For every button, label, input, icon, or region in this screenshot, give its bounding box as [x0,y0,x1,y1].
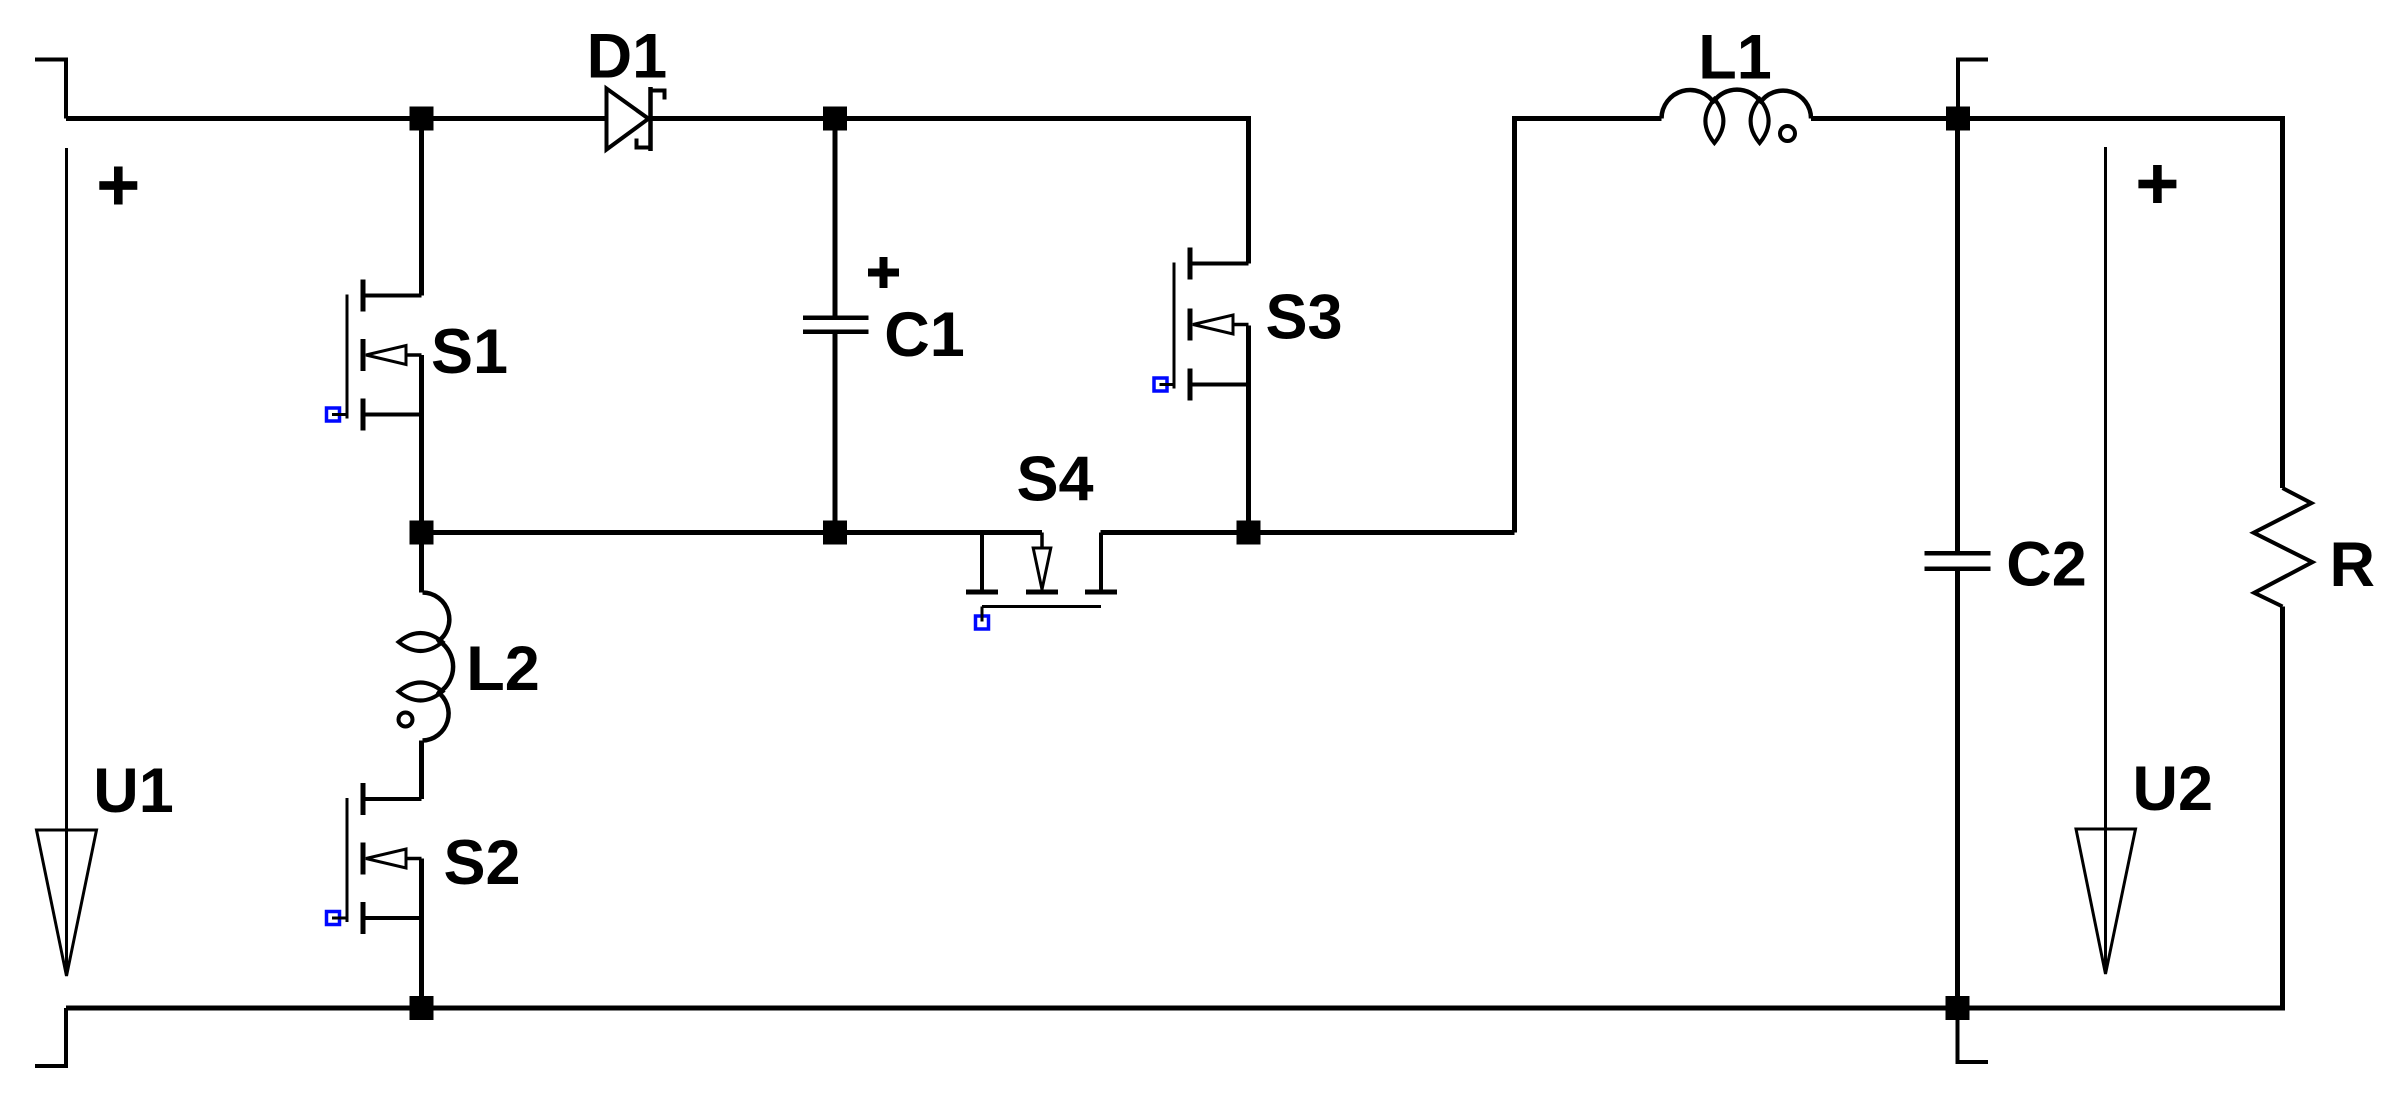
svg-text:D1: D1 [587,22,668,92]
svg-text:S4: S4 [1016,445,1093,515]
svg-text:C1: C1 [884,300,965,370]
svg-text:S2: S2 [443,828,520,898]
svg-text:R: R [2330,530,2376,600]
svg-text:S3: S3 [1265,283,1342,353]
svg-text:L1: L1 [1698,23,1772,93]
svg-text:U2: U2 [2133,754,2214,824]
svg-text:U1: U1 [93,756,174,826]
svg-text:S1: S1 [431,317,508,387]
svg-text:C2: C2 [2006,530,2087,600]
svg-text:L2: L2 [466,634,540,704]
